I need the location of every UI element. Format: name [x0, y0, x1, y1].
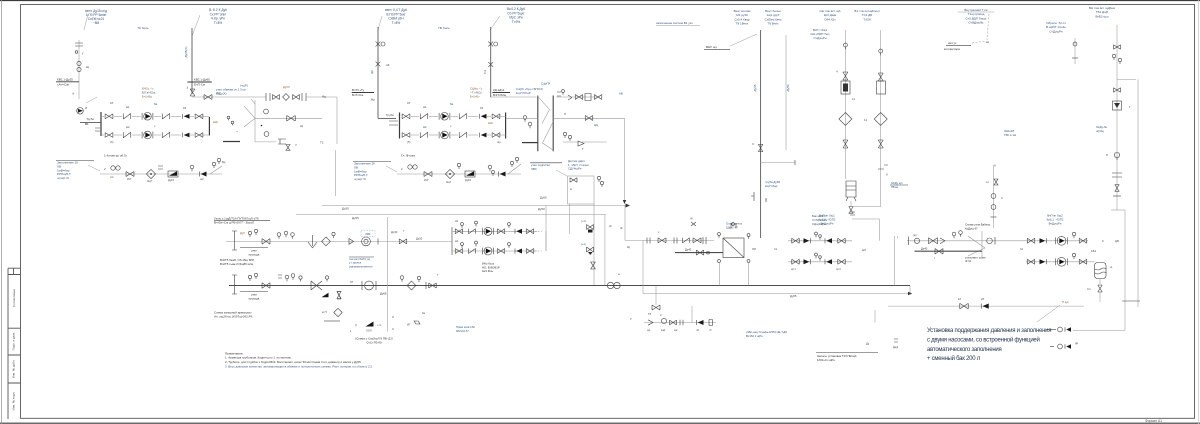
- PG6 row1: [1026, 240, 1088, 242]
- svg-text:указанием вентил: указанием вентил: [349, 264, 373, 268]
- arrow end main y205: [626, 204, 631, 208]
- svg-text:Труба: Труба: [86, 117, 94, 121]
- svg-text:Ду15: Ду15: [168, 178, 175, 182]
- PG4 row2: [788, 261, 852, 263]
- svg-text:К3: К3: [480, 106, 484, 110]
- svg-text:11: 11: [852, 97, 855, 101]
- svg-text:Ду50: Ду50: [538, 207, 545, 211]
- svg-text:Щ: Щ: [86, 65, 89, 69]
- svg-text:Т: Т: [1129, 105, 1131, 109]
- PHX drop lines: [719, 263, 721, 286]
- svg-text:прохода: прохода: [249, 252, 260, 256]
- ITP2 pump row 1: [402, 114, 410, 119]
- svg-text:(+1): (+1): [581, 242, 586, 246]
- svg-text:1б00+Сч щРн: 1б00+Сч щРн: [817, 358, 835, 362]
- svg-text:щx: щx: [497, 140, 501, 144]
- svg-text:КОЛ: КОЛ: [366, 329, 371, 333]
- svg-text:Щ: Щ: [986, 40, 989, 44]
- svg-text:прохода: прохода: [249, 296, 260, 300]
- bypass vertical x982: [981, 231, 983, 257]
- right connector to pressure unit: [1111, 209, 1125, 211]
- svg-text:ЗщГ: ЗщГ: [147, 179, 153, 183]
- svg-text:~8М: ~8М: [93, 21, 100, 25]
- heat exchanger plates: [537, 96, 539, 152]
- svg-text:Ид: Ид: [322, 95, 326, 99]
- svg-text:Ду65: Ду65: [352, 216, 359, 220]
- long divider vertical x388: [387, 217, 389, 332]
- svg-text:Вч2Т5 тьаж 2=6щ8б и2щ: Вч2Т5 тьаж 2=6щ8б и2щ: [220, 262, 254, 266]
- svg-text:Ду65: Ду65: [753, 84, 757, 91]
- second feed row y252.6: [675, 252, 723, 254]
- svg-text:Ду50: Ду50: [540, 196, 547, 200]
- riser x881: [880, 30, 882, 207]
- riser DN from top block1: [191, 28, 193, 94]
- svg-text:Бч1+Бт: Бч1+Бт: [470, 94, 480, 98]
- vertical pipe x761 from riser middle: [760, 30, 762, 238]
- membrane tank: [1095, 263, 1107, 279]
- riser valve: [190, 89, 195, 96]
- svg-text:Т1: Т1: [320, 141, 324, 145]
- svg-text:Ж б1: Ж б1: [965, 259, 972, 263]
- bypass vertical column x993: [993, 165, 995, 228]
- svg-text:З: З: [392, 315, 394, 319]
- main right riser x1117: [1116, 25, 1118, 210]
- svg-text:Об4 б2х: Об4 б2х: [824, 17, 836, 21]
- row2 sleeve bracket: [232, 275, 237, 294]
- podpitka box: [568, 176, 595, 204]
- svg-text:зtd: зtd: [110, 175, 114, 179]
- expansion vessel small: [846, 181, 856, 197]
- svg-text:ГВ1щ: ГВ1щ: [891, 185, 899, 189]
- svg-text:СчДущРн: СчДущРн: [814, 36, 827, 40]
- return branch y142: [223, 141, 240, 143]
- svg-text:Ду50: Ду50: [786, 84, 790, 91]
- gauges pair after collector: [227, 116, 230, 119]
- svg-text:Ду50: Ду50: [342, 207, 349, 211]
- tank drain valve: [1099, 279, 1101, 285]
- svg-text:Y: Y: [295, 143, 297, 147]
- valve on riser: [758, 144, 763, 152]
- PG3 row1: [452, 230, 537, 232]
- fill row components: [88, 165, 100, 171]
- vertical x335 upper: [335, 150, 337, 196]
- svg-text:ПК боль: ПК боль: [438, 26, 450, 30]
- svg-text:ВНУ щз: ВНУ щз: [706, 45, 717, 49]
- bypass valve cluster: [266, 93, 270, 101]
- PG3 dashes right: [534, 231, 542, 251]
- small Dn symbols: [894, 339, 898, 342]
- vertical x625 drop: [624, 206, 626, 241]
- bypass line right of HX: [490, 96, 537, 98]
- row2 pump inline: [365, 281, 374, 290]
- main line y205: [322, 205, 626, 207]
- main line y214.5: [296, 214, 606, 216]
- svg-text:Дщ4: Дщ4: [893, 345, 899, 349]
- svg-text:автоматического заполнения: автоматического заполнения: [927, 347, 1002, 353]
- bypass flag: [968, 236, 985, 256]
- svg-text:кщ1: кщ1: [661, 329, 666, 332]
- svg-text:И: И: [85, 106, 87, 110]
- svg-text:щт1: щт1: [791, 267, 796, 271]
- svg-text:Инв. № дубл.: Инв. № дубл.: [12, 360, 16, 379]
- plate heat exchanger square: [723, 238, 744, 258]
- svg-text:ВчТУ+Ту: ВчТУ+Ту: [352, 88, 365, 92]
- side tick: [751, 192, 754, 201]
- svg-text:КуДущ б7: КуДущ б7: [965, 226, 978, 230]
- HX top-right fittings: [557, 92, 561, 96]
- svg-text:ИГ: ИГ: [407, 323, 411, 327]
- svg-text:КВ1.1-Ду25: КВ1.1-Ду25: [57, 78, 73, 82]
- main dark line y285.5: [229, 285, 910, 287]
- svg-text:щ1: щ1: [647, 329, 651, 332]
- svg-text:...: ...: [200, 140, 203, 144]
- svg-text:Т9 1Вчех: Т9 1Вчех: [736, 22, 749, 26]
- riser from crossover: [254, 100, 256, 142]
- svg-text:СцЬПХ: СцЬПХ: [541, 82, 550, 86]
- svg-text:Вч1б2,1 щРн: Вч1б2,1 щРн: [746, 334, 763, 338]
- svg-text:Н2: Н2: [126, 125, 130, 129]
- svg-text:Н2: Н2: [423, 125, 427, 129]
- svg-text:0б2х(Л б7: 0б2х(Л б7: [456, 329, 469, 333]
- svg-text:+ С: + С: [377, 323, 381, 327]
- svg-text:1-й контур об.5т: 1-й контур об.5т: [104, 154, 128, 158]
- stub valve below L1: [655, 286, 657, 306]
- gauges on box right: [597, 176, 600, 179]
- svg-text:1щУ=б7щР: 1щУ=б7щР: [516, 91, 531, 95]
- row2 right of divider: [400, 276, 404, 280]
- svg-text:г.Ач=Сжт: г.Ач=Сжт: [57, 83, 70, 87]
- svg-text:Ду40: Ду40: [391, 230, 398, 234]
- svg-text:З: З: [187, 86, 189, 90]
- line y306 right: [888, 305, 1084, 307]
- ITP2 riser 2: [490, 27, 492, 97]
- svg-text:П: П: [564, 112, 566, 116]
- PG4 frame link: [852, 218, 880, 220]
- svg-text:ВчДущРн: ВчДущРн: [821, 221, 834, 225]
- right vertical x1138: [1137, 80, 1139, 308]
- fittings on x594 column: [587, 225, 594, 230]
- svg-text:11: 11: [864, 118, 867, 122]
- svg-text:др: др: [1075, 341, 1079, 345]
- fill row rising end: [210, 166, 222, 174]
- svg-text:ХВС: ХВС: [531, 167, 537, 171]
- svg-text:Труба: Труба: [386, 113, 394, 117]
- note with rule: [816, 352, 878, 354]
- svg-text:Т=8%: Т=8%: [214, 21, 223, 25]
- svg-text:Инв. № подл.: Инв. № подл.: [12, 391, 16, 410]
- row1 gauges trio: [277, 233, 281, 237]
- right collector bar ITP1: [208, 117, 210, 136]
- svg-text:заполнение систем В1 узл: заполнение систем В1 узл: [656, 21, 693, 25]
- HX drain fittings: [563, 132, 566, 135]
- svg-text:ж П: ж П: [322, 310, 327, 314]
- svg-text:Ду65: Ду65: [790, 294, 797, 298]
- PG3 collector links: [545, 231, 547, 251]
- svg-text:Согласовано: Согласовано: [12, 289, 16, 307]
- title strip cells left: [8, 268, 21, 419]
- PG5 lower stub: [915, 250, 983, 252]
- svg-text:Щ: Щ: [300, 124, 303, 128]
- svg-text:5ДщУ б7: 5ДщУ б7: [726, 225, 738, 229]
- svg-text:Ду65: Ду65: [380, 292, 387, 296]
- row2 safety valve drop: [322, 293, 329, 298]
- svg-text:Бч1+Вц: Бч1+Вц: [142, 94, 152, 98]
- pump row 2 bottom: [105, 133, 113, 138]
- detail row 1 y241.4: [226, 240, 452, 242]
- ITP2 riser 1: [377, 27, 379, 114]
- svg-text:НШ: НШ: [213, 120, 218, 124]
- PHX corner gauges: [718, 233, 721, 236]
- svg-text:Ж: Ж: [620, 226, 623, 230]
- svg-text:Ж: Ж: [609, 224, 612, 228]
- svg-text:ЦЛ: ЦЛ: [862, 248, 866, 252]
- svg-text:1Б1: 1Б1: [1091, 249, 1097, 253]
- svg-text:Т,б2б: Т,б2б: [863, 17, 871, 21]
- svg-text:ЗГ: ЗГ: [350, 280, 354, 284]
- ITP2 pump row 2: [402, 133, 410, 138]
- svg-text:Ап. ущ2бтщ 1б В7щ-0б2,Рб: Ап. ущ2бтщ 1б В7щ-0б2,Рб: [214, 315, 253, 319]
- ITP2 collector bar: [505, 113, 507, 139]
- ITP2 manifold entry: [377, 114, 379, 118]
- svg-text:Т9 Вчех: Т9 Вчех: [768, 22, 779, 26]
- svg-text:ТК боль: ТК боль: [137, 26, 148, 30]
- line to drop arrow: [624, 118, 626, 200]
- svg-text:Ду40: Ду40: [685, 248, 692, 252]
- row2 reducer: [311, 281, 322, 290]
- svg-text:1б: 1б: [958, 297, 961, 301]
- svg-text:/\2: /\2: [1020, 247, 1023, 251]
- svg-text:ДуХ: ДуХ: [240, 231, 245, 235]
- svg-text:ДуХХ: ДуХХ: [283, 85, 290, 89]
- svg-text:Установка поддержания давления: Установка поддержания давления и заполне…: [927, 328, 1051, 334]
- leader to text: [1037, 305, 1060, 322]
- svg-text:Т=б%: Т=б%: [512, 20, 521, 24]
- svg-text:стальная т.шовн: стальная т.шовн: [965, 257, 986, 260]
- svg-text:СГ: СГ: [110, 101, 114, 105]
- svg-text:Н1: Н1: [455, 219, 459, 223]
- short riser x1075: [1074, 38, 1076, 64]
- connector symbols right of text: [1046, 329, 1056, 331]
- line y293.5: [643, 293, 908, 295]
- svg-text:АВ: АВ: [619, 92, 623, 96]
- left manifold stub: [80, 121, 101, 123]
- PG3 row2: [452, 250, 537, 252]
- svg-text:щ2: щ2: [674, 329, 678, 332]
- svg-text:2щУ=бар: 2щУ=бар: [765, 184, 778, 188]
- branch at y162: [761, 161, 795, 163]
- svg-text:ба: ба: [154, 102, 158, 106]
- svg-text:Н21 Фль: Н21 Фль: [482, 269, 494, 273]
- svg-text:Формат А1: Формат А1: [1145, 419, 1162, 423]
- svg-text:№: №: [422, 311, 425, 315]
- svg-text:СДУ4щРн: СДУ4щРн: [568, 167, 582, 171]
- svg-text:ВчБ2-щш: ВчБ2-щш: [1096, 14, 1110, 18]
- svg-text:КВ2.1-Ду65: КВ2.1-Ду65: [194, 78, 210, 82]
- svg-text:Сл: Сл: [1087, 287, 1091, 291]
- svg-text:У: У: [630, 317, 632, 321]
- svg-text:ЛИ: ЛИ: [752, 247, 756, 251]
- svg-text:ВчП=б2щ: ВчП=б2щ: [493, 93, 507, 97]
- svg-text:В1: В1: [85, 122, 89, 126]
- row1 flex drop: [308, 242, 317, 248]
- svg-text:СчВДщvillь: СчВДщvillь: [968, 21, 984, 25]
- svg-text:Н2: Н2: [455, 239, 459, 243]
- svg-text:эФ: эФ: [386, 63, 389, 67]
- svg-text:коллектора: коллектора: [944, 47, 960, 51]
- svg-text:Вд: Вд: [222, 160, 226, 164]
- pump circles pair on L1: [607, 282, 613, 288]
- svg-text:с двумя насосами, со встроенно: с двумя насосами, со встроенной функцией: [927, 336, 1040, 343]
- crossover K junction: [244, 99, 255, 127]
- svg-text:ЗщГ: ЗщГ: [446, 180, 452, 184]
- lower service row y322.5: [644, 322, 716, 324]
- leader to riser: [192, 15, 200, 36]
- svg-text:3 щт: 3 щт: [240, 88, 247, 92]
- svg-text:ИчГ: ИчГ: [127, 177, 132, 181]
- svg-text:Вч-Её+Сж д РБ-0б7Г - Бщ-(Л: Вч-Её+Сж д РБ-0б7Г - Бщ-(Л: [214, 221, 254, 225]
- svg-text:Гл. Ф-шка: Гл. Ф-шка: [401, 154, 415, 158]
- svg-text:/\1: /\1: [774, 247, 777, 251]
- svg-text:2Д.1Дч1: 2Д.1Дч1: [493, 88, 505, 92]
- svg-text:Жр: Жр: [371, 97, 376, 101]
- svg-text:Т: Т: [582, 147, 584, 151]
- svg-text:ба: ба: [450, 102, 454, 106]
- row2 gauge cluster: [278, 275, 282, 278]
- svg-text:низ уз: низ уз: [948, 41, 957, 45]
- svg-text:Подп. и дата: Подп. и дата: [12, 332, 16, 350]
- svg-text:Ду65(Х): Ду65(Х): [184, 47, 188, 58]
- svg-text:ДК: ДК: [370, 70, 374, 74]
- HX dark stub left: [522, 142, 538, 144]
- svg-text:зt: зt: [570, 187, 572, 191]
- bypass line y97: [192, 96, 266, 98]
- svg-text:С: С: [392, 327, 394, 331]
- pump row 1 top: [105, 114, 113, 119]
- svg-text:щтщС %: щтщС %: [57, 176, 69, 180]
- row1 check and pump: [349, 239, 354, 245]
- verticals under podpitka: [569, 204, 571, 234]
- svg-text:щтщС %: щтщС %: [354, 177, 366, 181]
- ITP2 fill rising end: [508, 164, 521, 174]
- svg-text:Н1: Н1: [126, 105, 130, 109]
- PG6 row2: [1026, 261, 1088, 263]
- svg-text:ЕчП-Сж: ЕчП-Сж: [194, 83, 205, 87]
- ITP2 gauges pair: [523, 116, 527, 120]
- svg-text:2б: 2б: [981, 297, 984, 301]
- svg-text:ЗЖ: ЗЖ: [764, 197, 768, 202]
- svg-text:(б): (б): [110, 140, 114, 144]
- svg-text:ИВК: ИВК: [366, 233, 371, 236]
- svg-text:Щ: Щ: [627, 245, 630, 249]
- svg-text:К3: К3: [183, 106, 187, 110]
- page outer border: [0, 0, 1200, 2]
- supply branch y118: [255, 117, 322, 119]
- svg-text:П щ1: П щ1: [1062, 300, 1069, 304]
- makeup unit small column: [78, 40, 80, 99]
- svg-text:щУ2щ: щУ2щ: [1096, 129, 1105, 133]
- svg-text:(+1): (+1): [581, 219, 586, 223]
- svg-text:НШ: НШ: [488, 121, 493, 125]
- svg-text:Х: Х: [1001, 196, 1003, 200]
- svg-text:ГВУ в 1м: ГВУ в 1м: [1004, 133, 1016, 137]
- svg-text:щ2: щ2: [200, 177, 204, 181]
- svg-text:Н1: Н1: [423, 105, 427, 109]
- svg-text:СчДущРн: СчДущРн: [1049, 29, 1063, 33]
- svg-text:Ду15: Ду15: [465, 178, 472, 182]
- svg-text:КуДу(Х): КуДу(Х): [216, 92, 226, 96]
- pump gauge left: [77, 108, 84, 115]
- PG5 main line: [907, 240, 1026, 242]
- svg-text:ИчГ: ИчГ: [424, 178, 429, 182]
- svg-text:ВчДущРн: ВчДущРн: [1049, 221, 1062, 225]
- svg-text:СГ: СГ: [407, 101, 411, 105]
- ITP2 fill row: [386, 166, 397, 172]
- svg-text:Тб: Тб: [648, 312, 652, 316]
- svg-text:СчС+ТБ-б0: СчС+ТБ-б0: [366, 341, 382, 345]
- HX lower-right line: [553, 117, 624, 119]
- svg-text:Ду50: Ду50: [416, 237, 423, 241]
- svg-text:Х: Х: [752, 142, 754, 146]
- svg-text:(ю): (ю): [913, 233, 917, 237]
- svg-text:щт2: щт2: [836, 267, 841, 271]
- PG5 riser to L1: [894, 236, 896, 286]
- riser x845: [844, 30, 846, 179]
- parallel thin pipe x786: [785, 35, 787, 150]
- row1 sleeve bracket: [232, 231, 237, 250]
- PG3 left bracket: [451, 227, 453, 255]
- PG4 row1: [788, 240, 852, 242]
- svg-text:ВчТ=Сж: ВчТ=Сж: [352, 93, 363, 97]
- svg-text:ЦБ: ЦБ: [1115, 239, 1119, 243]
- svg-text:П: П: [1106, 153, 1108, 157]
- svg-text:(б): (б): [407, 140, 411, 144]
- svg-text:Ду40: Ду40: [921, 247, 928, 251]
- svg-text:3. Весь диапазон затем зап. ав: 3. Весь диапазон затем зап. автоматизаци…: [225, 364, 372, 368]
- svg-text:+ сменный бак 200 л: + сменный бак 200 л: [927, 355, 981, 362]
- row1 strainer diamond: [322, 237, 331, 246]
- HX unit feed row y240: [625, 239, 714, 241]
- svg-text:Т=8%: Т=8%: [392, 21, 401, 25]
